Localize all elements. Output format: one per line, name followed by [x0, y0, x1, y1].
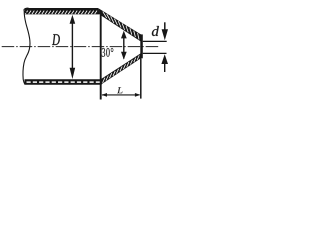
outlet tube bottom line	[143, 52, 167, 54]
label L	[117, 87, 123, 93]
dimension d lower arrow (points up at outlet bottom line)	[161, 54, 168, 72]
dimension D line with arrowheads	[70, 15, 76, 79]
L right extension line	[140, 58, 142, 98]
dimension d upper arrow (points down at outlet top line)	[162, 22, 168, 40]
break line curl at pipe top-left tip	[24, 8, 28, 13]
junction line pipe/cone (also L left extension line)	[100, 14, 102, 99]
label d	[152, 26, 159, 36]
cone angle dimension double arrow	[121, 31, 127, 60]
break line main S-curve	[23, 11, 30, 85]
pipe top wall (hatched section band)	[25, 8, 101, 14]
centerline (dash-dot pipe axis)	[2, 46, 159, 48]
cone lower wall (hatched slant band)	[101, 53, 141, 84]
label D	[52, 34, 60, 45]
small end face bar of cone	[140, 34, 143, 58]
outlet tube top line	[143, 40, 167, 42]
cone upper wall (hatched slant band)	[98, 8, 141, 41]
dimension L line with arrowheads	[102, 93, 141, 97]
label 30 degrees	[102, 48, 114, 57]
pipe bottom wall (hatched section band)	[25, 79, 102, 85]
